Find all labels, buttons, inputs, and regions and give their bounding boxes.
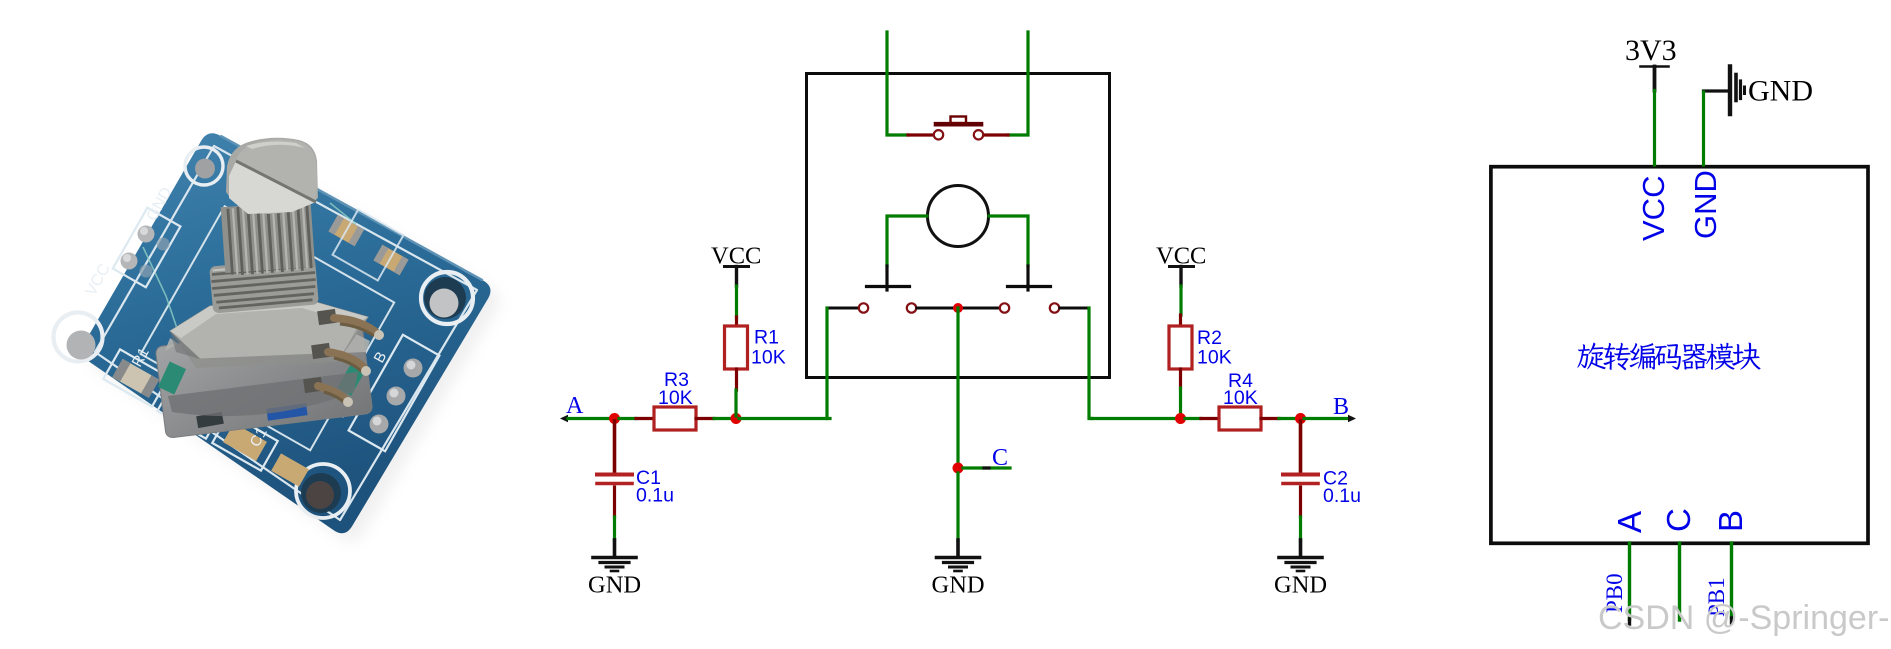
power VCC (right)	[1156, 243, 1206, 287]
encoder wheel (circle)	[928, 186, 989, 247]
svg-text:VCC: VCC	[1636, 176, 1671, 241]
power VCC (left)	[711, 243, 761, 287]
svg-text:C: C	[992, 445, 1008, 471]
wire (box left bottom)	[827, 308, 830, 419]
wire (top right vertical into box)	[1008, 32, 1028, 135]
wire (3V3 to VCC pin)	[1653, 91, 1656, 166]
svg-text:A: A	[566, 393, 584, 419]
node A terminal	[560, 415, 568, 422]
wire (A to junction)	[568, 417, 612, 420]
knurled shaft	[221, 201, 316, 276]
mounting hole bottom	[296, 464, 350, 518]
wire (R2 to junction)	[1179, 388, 1182, 416]
wire (junction to R3)	[619, 417, 636, 420]
wire (R4 to node B)	[1279, 417, 1297, 420]
contact row pins A and C and B	[827, 303, 1089, 312]
module title 旋转编码器模块	[1577, 343, 1760, 371]
wire (circle right terminal down)	[989, 216, 1028, 266]
wire (C1 to GND)	[613, 517, 616, 540]
capacitor C2	[1283, 421, 1318, 517]
PCB top edge light	[220, 136, 482, 281]
junction dot (common C)	[953, 303, 963, 313]
wire (R3 to junction R1)	[714, 417, 733, 420]
wire (junction to box)	[739, 417, 827, 420]
ground symbol (top right, sideways)	[1704, 67, 1745, 115]
resistor R3	[636, 407, 714, 430]
svg-text:CSDN @-Springer-: CSDN @-Springer-	[1598, 599, 1889, 637]
junction dot (A / C1 / R3)	[609, 413, 620, 424]
junction dot (R1 bottom)	[731, 413, 742, 424]
resistor R1	[725, 317, 748, 390]
encoder body top face	[165, 326, 370, 359]
svg-text:10K: 10K	[1223, 387, 1258, 409]
wire (VCC to R2)	[1179, 286, 1182, 315]
silkscreen inner square around encoder	[141, 206, 395, 450]
encoder pins (right side)	[303, 309, 384, 407]
push button SW contacts and actuator	[908, 117, 1008, 140]
wire (top left vertical into box)	[887, 32, 908, 135]
solder pads A C B	[370, 359, 423, 434]
svg-text:10K: 10K	[1197, 347, 1232, 369]
junction dot (node C)	[953, 463, 964, 474]
resistor R4	[1201, 407, 1279, 430]
wire (box to junction R2)	[1092, 417, 1178, 420]
encoder body bottom shade	[168, 372, 358, 416]
wire (node C stub)	[963, 466, 1010, 469]
wire (box right bottom)	[1089, 308, 1092, 419]
svg-text:R1: R1	[754, 327, 779, 349]
left wiper contact symbol	[867, 266, 910, 290]
resistor R2	[1169, 315, 1192, 388]
right wiper contact symbol	[1008, 266, 1051, 290]
PCB shadow	[92, 142, 500, 542]
svg-text:10K: 10K	[751, 347, 786, 369]
svg-text:GND: GND	[588, 572, 641, 599]
wire (common down to node C)	[956, 308, 959, 468]
silkscreen border	[95, 146, 477, 520]
module box U1	[1491, 167, 1868, 544]
svg-text:GND: GND	[1274, 572, 1327, 599]
svg-text:B: B	[1333, 394, 1349, 420]
threaded bushing	[209, 257, 319, 313]
node B terminal	[1348, 415, 1356, 422]
thin trace lines	[143, 203, 356, 384]
wire (pin A / PB0)	[1628, 543, 1631, 624]
VCC GND header pads	[113, 208, 181, 288]
bottom-left component row R1 R3 C1	[103, 349, 309, 486]
svg-text:0.1u: 0.1u	[636, 485, 674, 507]
ground symbol (left)	[593, 540, 636, 571]
junction dot (node B / C2)	[1295, 413, 1306, 424]
svg-text:GND: GND	[1688, 170, 1723, 239]
encoder flange nut	[170, 299, 368, 368]
svg-text:10K: 10K	[658, 387, 693, 409]
svg-text:GND: GND	[1748, 75, 1813, 108]
pin pads box A C B	[349, 335, 440, 451]
mounting hole left	[54, 313, 103, 362]
wire (C2 to GND)	[1299, 517, 1302, 540]
svg-text:B: B	[1712, 510, 1749, 532]
PCB board	[82, 133, 490, 533]
svg-text:VCC: VCC	[83, 261, 114, 299]
capacitor C1	[597, 421, 632, 517]
svg-text:A: A	[1611, 511, 1648, 533]
wire (node B stub)	[1304, 417, 1351, 420]
wire (pin C)	[1678, 543, 1681, 620]
ground symbol (right)	[1279, 540, 1322, 571]
SMD resistors top-right	[329, 210, 409, 281]
wire (VCC to R1)	[735, 286, 738, 317]
wire (pin B / PB1)	[1730, 543, 1733, 623]
svg-text:GND: GND	[932, 572, 985, 599]
wire (R1 to junction)	[734, 390, 737, 416]
mounting hole top	[185, 147, 223, 185]
svg-text:C: C	[1660, 508, 1697, 532]
shaft head cap	[226, 138, 318, 214]
encoder metal body	[155, 322, 373, 439]
wire (circle left terminal down)	[887, 216, 927, 266]
junction dot (R2 bottom)	[1175, 413, 1186, 424]
svg-text:3V3: 3V3	[1625, 34, 1677, 67]
D flat face	[229, 161, 316, 214]
wire (junction to R4)	[1185, 417, 1201, 420]
ground symbol (center)	[937, 540, 980, 571]
power 3V3	[1625, 34, 1677, 91]
svg-text:0.1u: 0.1u	[1323, 485, 1361, 507]
mounting hole right	[421, 272, 473, 324]
encoder body green pcb edges	[158, 360, 367, 428]
wire (C down to GND)	[956, 473, 959, 540]
wire (GND to pin)	[1702, 92, 1705, 165]
rotary encoder body outline box	[807, 74, 1110, 378]
